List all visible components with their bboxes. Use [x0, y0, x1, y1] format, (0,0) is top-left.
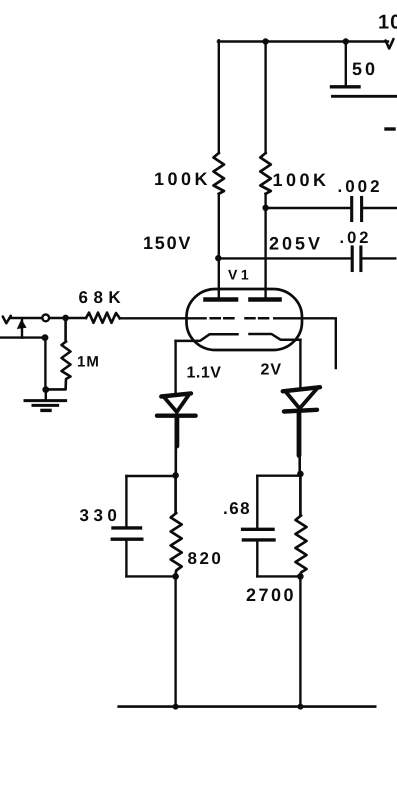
capacitor C5 .68 top plate [243, 528, 273, 531]
node: right rail junction [297, 704, 303, 710]
node: junction of 50uF cap with top rail [343, 38, 349, 44]
svg-text:.002: .002 [338, 177, 383, 196]
svg-text:820: 820 [188, 549, 224, 568]
ground [25, 399, 66, 402]
wire: R6 bottom down to ground rail [299, 576, 301, 706]
wire: lower input wire from left edge [0, 336, 45, 338]
wire: right grid out and down (stub) [274, 318, 336, 368]
wire: top rail continuation tick (right edge) [386, 39, 394, 49]
wire: grid wire from 68K to tube [120, 317, 206, 319]
svg-text:205V: 205V [269, 234, 323, 254]
wire: C4 bottom to R5 bottom [126, 575, 175, 577]
diode D1 (left, hand drawn) [157, 393, 196, 446]
grid (right triode) dashes [246, 317, 269, 320]
cathode (left triode) [176, 334, 238, 341]
svg-text:330: 330 [80, 506, 122, 525]
plate bar (right triode anode) [251, 297, 280, 302]
wire: right cathode lead down to diode D2 [299, 340, 301, 388]
resistor R3 100K (left plate load) [214, 153, 225, 194]
node: left plate / .02 coupling junction [215, 255, 221, 261]
wire: right plate to capacitor C2 [266, 207, 350, 209]
wire: input continuation tick (left edge) [3, 316, 11, 324]
svg-text:.02: .02 [340, 229, 372, 247]
wire: C2 output to right edge [363, 207, 396, 209]
wire: C5 top lead [256, 476, 258, 528]
wire: R4 bottom lead down to right plate of V1 [264, 194, 266, 299]
wire: down to ground [44, 338, 46, 390]
wire: left plate to capacitor C3 [218, 257, 350, 259]
wire: C5 bottom to R6 bottom [257, 575, 300, 577]
capacitor C2 .002 left plate [350, 198, 353, 221]
wire: junction to C4 [126, 475, 175, 477]
wiper arrow onto input wire [21, 319, 23, 338]
node: junction of right 100K with top rail [262, 38, 268, 44]
wire: C3 output to right edge [363, 257, 396, 259]
svg-text:2V: 2V [261, 362, 283, 379]
capacitor C5 .68 bottom plate [243, 538, 274, 541]
minus mark at right edge [386, 127, 394, 130]
wire: D1 lead down [175, 446, 178, 475]
capacitor C1 50 top plate [332, 85, 360, 88]
wire: C4 bottom lead [125, 541, 127, 577]
node: 1M junction on input wire [62, 315, 69, 322]
svg-text:2700: 2700 [246, 585, 296, 605]
resistor R5 820 [171, 475, 182, 574]
wire: D2 lead down [298, 456, 301, 474]
wire: left cathode lead down to diode D1 [174, 341, 176, 392]
capacitor C1 50 bottom plate [333, 95, 397, 98]
wire: bottom ground rail [119, 705, 376, 708]
tube V1 envelope [187, 289, 303, 350]
svg-text:10: 10 [378, 12, 397, 34]
terminal: open circle on input wire [42, 315, 49, 322]
capacitor C4 330 bottom plate [112, 538, 142, 541]
grid (left triode) dashes [211, 317, 234, 320]
node: R6 bottom junction [297, 573, 304, 580]
capacitor C2 .002 right plate [360, 198, 363, 221]
wire: R5 bottom down to ground rail [174, 576, 176, 706]
resistor R4 100K (right plate load) [260, 153, 271, 194]
svg-text:150V: 150V [143, 233, 192, 253]
node: right plate / .002 coupling junction [262, 205, 268, 211]
capacitor C3 .02 left plate [351, 247, 354, 271]
resistor R2 1M [47, 318, 71, 390]
svg-text:100K: 100K [154, 169, 211, 189]
plate bar (left triode anode) [206, 297, 237, 302]
wire: input top wire [11, 317, 87, 318]
svg-text:V1: V1 [228, 267, 252, 283]
wire: right plate lead from top rail down to resistor R4 [264, 42, 266, 154]
wire: stub to ground symbol [45, 390, 47, 399]
wire: C4 top lead [125, 476, 127, 526]
svg-text:1M: 1M [77, 354, 100, 371]
cathode (right triode) [250, 334, 301, 340]
svg-text:.68: .68 [223, 499, 251, 518]
capacitor C3 .02 right plate [359, 247, 362, 271]
wire: R3 bottom lead down to left plate of V1 [218, 194, 220, 299]
resistor R6 2700 [296, 474, 307, 575]
wire: B+ top rail [218, 40, 388, 42]
diode D2 (right, hand drawn) [283, 387, 320, 455]
wire: left plate lead from top rail down to resistor R3 [218, 40, 220, 153]
node: D1 / C4 / R5 junction [172, 472, 179, 479]
node: lower input junction [42, 334, 49, 341]
node: left rail junction [173, 704, 179, 710]
wire: junction to C5 [257, 475, 300, 477]
resistor R1 68K [86, 313, 120, 323]
svg-text:68K: 68K [79, 288, 127, 307]
svg-text:100K: 100K [273, 170, 330, 190]
node: D2 / C5 / R6 junction [297, 471, 304, 478]
capacitor C4 330 top plate [113, 526, 141, 529]
wire: lead from top rail to capacitor C1 [345, 42, 347, 86]
wire: C5 bottom lead [256, 541, 258, 576]
node: R5 bottom junction [172, 573, 179, 580]
svg-text:50: 50 [352, 59, 378, 79]
svg-text:1.1V: 1.1V [187, 365, 222, 382]
node: ground junction [42, 386, 49, 393]
